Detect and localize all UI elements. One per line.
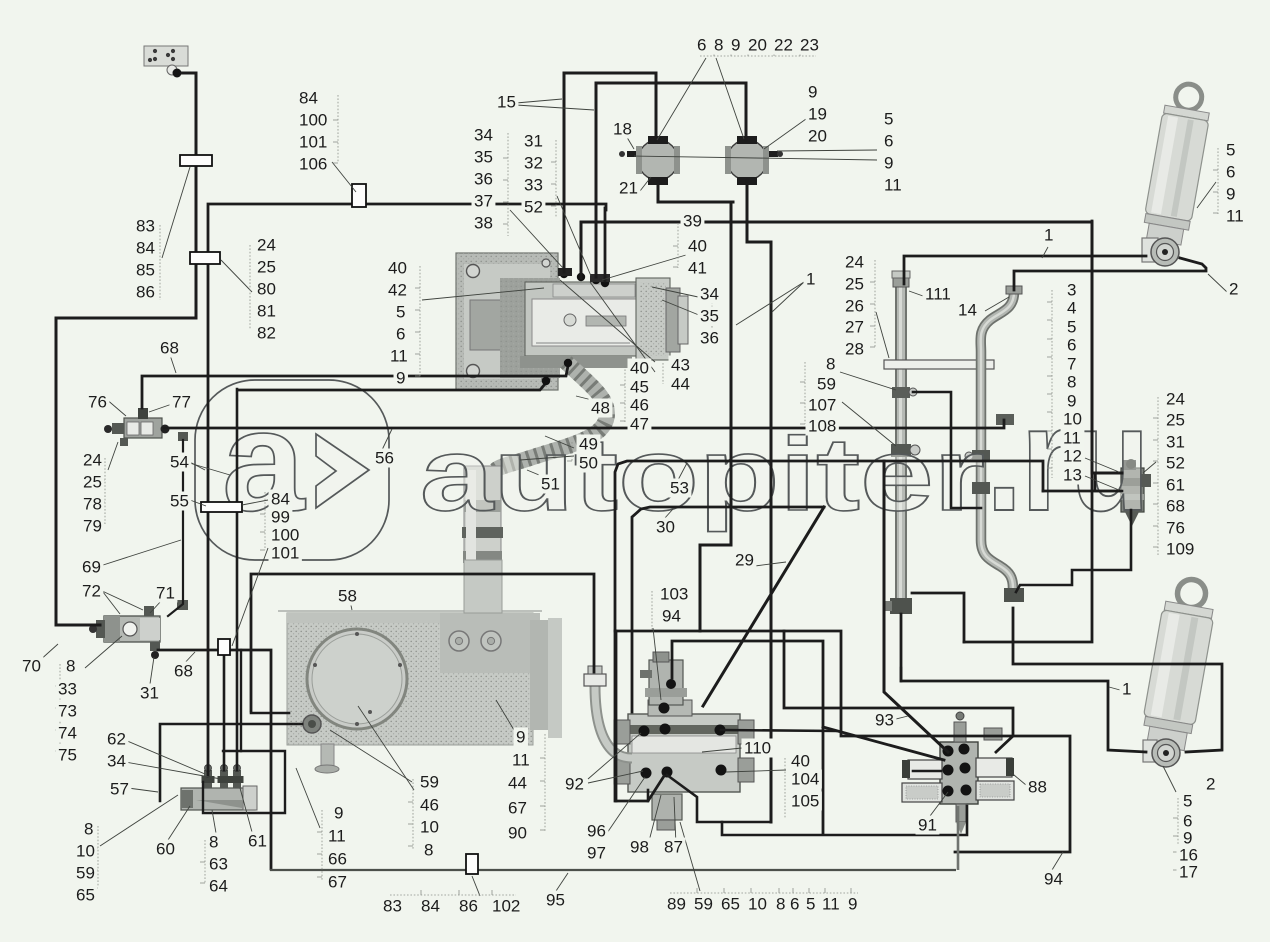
air cylinder bottom-right 5-17 xyxy=(1139,575,1220,751)
svg-text:34: 34 xyxy=(700,285,719,304)
svg-text:9: 9 xyxy=(731,36,740,55)
pipe inner loop manifold xyxy=(223,650,241,751)
instrument panel (top-left) xyxy=(144,46,188,66)
hose connector 55 xyxy=(201,502,242,512)
svg-text:8: 8 xyxy=(424,841,433,860)
svg-text:111: 111 xyxy=(925,285,951,304)
svg-text:10: 10 xyxy=(76,842,95,861)
svg-text:8: 8 xyxy=(1067,373,1076,392)
drier valve 61 right xyxy=(1121,468,1144,512)
svg-text:40: 40 xyxy=(388,259,407,278)
svg-text:36: 36 xyxy=(700,329,719,348)
pipe 2 top xyxy=(1014,258,1206,290)
pipe valve92 left loop xyxy=(615,631,618,801)
svg-text:59: 59 xyxy=(420,773,439,792)
svg-text:108: 108 xyxy=(808,417,836,436)
brake chamber 20 (right) xyxy=(727,140,767,180)
svg-text:76: 76 xyxy=(88,393,107,412)
svg-text:95: 95 xyxy=(546,891,565,910)
pipe valve92 bottom step xyxy=(647,790,650,801)
svg-text:88: 88 xyxy=(1028,778,1047,797)
svg-text:1: 1 xyxy=(1044,226,1053,245)
cylinder bottom-right pulley xyxy=(1143,740,1157,762)
pipe 57 loop xyxy=(160,724,302,801)
svg-text:100: 100 xyxy=(299,111,327,130)
svg-text:21: 21 xyxy=(619,179,638,198)
bracket bar 28 xyxy=(884,360,994,369)
pipe valve 92 lower jog xyxy=(722,806,967,835)
svg-text:a: a xyxy=(222,381,307,541)
svg-text:71: 71 xyxy=(156,584,175,603)
svg-text:10: 10 xyxy=(420,818,439,837)
svg-text:6: 6 xyxy=(396,325,405,344)
svg-text:3: 3 xyxy=(1067,281,1076,300)
svg-text:69: 69 xyxy=(82,558,101,577)
pipe to cylinder1 xyxy=(904,256,1146,284)
manifold 60-61 xyxy=(181,788,255,810)
svg-text:10: 10 xyxy=(748,895,767,914)
line 69 elbows xyxy=(178,432,188,441)
svg-text:32: 32 xyxy=(524,154,543,173)
standpipe 111 xyxy=(895,284,907,610)
svg-text:17: 17 xyxy=(1179,863,1198,882)
svg-text:57: 57 xyxy=(110,780,129,799)
pipe 68 lower xyxy=(158,650,271,869)
svg-text:52: 52 xyxy=(1166,454,1185,473)
svg-text:11: 11 xyxy=(1063,429,1081,448)
svg-text:11: 11 xyxy=(328,827,346,846)
pipe 83-86 branch xyxy=(208,204,606,776)
svg-text:6: 6 xyxy=(790,895,799,914)
svg-text:25: 25 xyxy=(257,258,276,277)
svg-text:9: 9 xyxy=(396,369,405,388)
exhaust hose 48 xyxy=(496,362,607,470)
svg-text:91: 91 xyxy=(918,816,937,835)
svg-text:11: 11 xyxy=(390,347,408,366)
cylinder top-right pulley 2 xyxy=(1142,238,1158,262)
svg-text:6: 6 xyxy=(884,132,893,151)
svg-text:80: 80 xyxy=(257,280,276,299)
hose top elbow fitting xyxy=(584,674,606,686)
svg-text:9: 9 xyxy=(516,728,525,747)
svg-text:40: 40 xyxy=(688,237,707,256)
svg-text:63: 63 xyxy=(209,855,228,874)
svg-text:15: 15 xyxy=(497,93,516,112)
svg-text:6: 6 xyxy=(1067,336,1076,355)
muffler stack 49-51 xyxy=(464,466,501,613)
hose connector 84-99-100-101 xyxy=(218,639,230,655)
engine-gearbox assembly 40-47 xyxy=(456,253,558,390)
svg-text:4: 4 xyxy=(1067,299,1076,318)
svg-text:2: 2 xyxy=(1229,280,1238,299)
svg-text:46: 46 xyxy=(630,396,649,415)
svg-text:12: 12 xyxy=(1063,447,1082,466)
svg-text:5: 5 xyxy=(884,110,893,129)
svg-text:58: 58 xyxy=(338,587,357,606)
svg-text:29: 29 xyxy=(735,551,754,570)
engine bottom port xyxy=(563,357,573,367)
pipe C 30 xyxy=(632,507,824,712)
pipe junction dots xyxy=(564,359,572,367)
pipe valve92 right upper xyxy=(721,730,836,731)
svg-text:8: 8 xyxy=(66,657,75,676)
pipe cyl2 line1 corner xyxy=(900,668,903,681)
hose to valve 92 xyxy=(595,686,632,758)
svg-text:44: 44 xyxy=(671,375,690,394)
chamber 20 side fitting xyxy=(769,151,778,157)
svg-text:9: 9 xyxy=(1226,185,1235,204)
watermark squircle logo xyxy=(195,380,389,560)
svg-text:89: 89 xyxy=(667,895,686,914)
central valve block 92 / 110 xyxy=(628,714,740,792)
svg-text:24: 24 xyxy=(845,253,864,272)
svg-text:33: 33 xyxy=(58,680,77,699)
pipe valve91 left stub xyxy=(913,770,941,773)
svg-text:8: 8 xyxy=(84,820,93,839)
svg-text:33: 33 xyxy=(524,176,543,195)
svg-text:31: 31 xyxy=(140,684,159,703)
svg-text:5: 5 xyxy=(1183,792,1192,811)
svg-text:39: 39 xyxy=(683,212,702,231)
svg-text:1: 1 xyxy=(806,270,815,289)
svg-text:52: 52 xyxy=(524,198,543,217)
svg-text:9: 9 xyxy=(808,83,817,102)
svg-text:97: 97 xyxy=(587,844,606,863)
svg-text:11: 11 xyxy=(512,751,530,770)
svg-text:46: 46 xyxy=(420,796,439,815)
svg-text:90: 90 xyxy=(508,824,527,843)
svg-text:19: 19 xyxy=(808,105,827,124)
suspension valve block 88-91 xyxy=(940,742,978,804)
svg-text:30: 30 xyxy=(656,518,675,537)
fitting 14 bottom xyxy=(1004,588,1024,602)
pipe 14 bottom to cyl2 xyxy=(1013,608,1222,752)
svg-text:8: 8 xyxy=(209,833,218,852)
svg-text:75: 75 xyxy=(58,746,77,765)
svg-text:66: 66 xyxy=(328,850,347,869)
svg-text:68: 68 xyxy=(174,662,193,681)
svg-text:55: 55 xyxy=(170,492,189,511)
pipe manifold drop 2 xyxy=(223,655,226,770)
svg-text:autopiter: autopiter xyxy=(420,416,985,532)
svg-text:14: 14 xyxy=(958,301,977,320)
svg-text:2: 2 xyxy=(1206,775,1215,794)
clamp on 111 lower xyxy=(891,444,911,457)
svg-text:59: 59 xyxy=(817,375,836,394)
pipe 93 shallow diagonal xyxy=(823,727,944,760)
svg-text:13: 13 xyxy=(1063,466,1082,485)
svg-text:109: 109 xyxy=(1166,540,1194,559)
pipe drier down xyxy=(1016,510,1131,592)
clamp on 14 mid xyxy=(972,450,990,462)
svg-text:83: 83 xyxy=(136,217,155,236)
svg-text:54: 54 xyxy=(170,453,189,472)
pipe valve 92 right lower xyxy=(667,775,771,822)
air tank / heater unit 58 xyxy=(287,613,533,745)
pipe y631 to 94box xyxy=(615,631,1070,852)
svg-text:9: 9 xyxy=(1067,392,1076,411)
svg-text:23: 23 xyxy=(800,36,819,55)
svg-text:34: 34 xyxy=(474,126,493,145)
svg-text:45: 45 xyxy=(630,378,649,397)
svg-text:51: 51 xyxy=(541,475,560,494)
svg-text:40: 40 xyxy=(630,359,649,378)
svg-text:8: 8 xyxy=(776,895,785,914)
svg-text:24: 24 xyxy=(1166,390,1185,409)
svg-text:11: 11 xyxy=(1226,207,1244,226)
svg-text:65: 65 xyxy=(721,895,740,914)
svg-text:86: 86 xyxy=(136,283,155,302)
pipe x883 diagonal 93 xyxy=(884,461,948,752)
svg-text:6: 6 xyxy=(697,36,706,55)
svg-text:38: 38 xyxy=(474,214,493,233)
svg-text:18: 18 xyxy=(613,120,632,139)
svg-text:68: 68 xyxy=(1166,497,1185,516)
svg-text:59: 59 xyxy=(694,895,713,914)
svg-text:85: 85 xyxy=(136,261,155,280)
svg-text:83: 83 xyxy=(383,897,402,916)
manifold fittings 62-64 xyxy=(204,770,212,788)
pipe valve92 step right xyxy=(784,631,1013,752)
svg-text:67: 67 xyxy=(328,873,347,892)
svg-text:61: 61 xyxy=(248,832,267,851)
svg-text:84: 84 xyxy=(299,89,318,108)
svg-text:76: 76 xyxy=(1166,519,1185,538)
svg-text:49: 49 xyxy=(579,435,598,454)
pipe clamp link xyxy=(913,392,981,508)
hose connector 24-25-80 xyxy=(190,252,220,264)
svg-text:64: 64 xyxy=(209,877,228,896)
svg-text:60: 60 xyxy=(156,840,175,859)
tank leg xyxy=(321,744,334,768)
valve 91 gray stem to pipe 95 xyxy=(957,806,960,870)
svg-text:40: 40 xyxy=(791,752,810,771)
panel outlet fitting xyxy=(167,65,177,75)
svg-text:11: 11 xyxy=(884,176,902,195)
valve block 70-71 left xyxy=(104,616,160,642)
svg-text:43: 43 xyxy=(671,356,690,375)
pilot valve 103-94 on top xyxy=(649,660,683,705)
pipe 39 stub lower xyxy=(1095,473,1122,491)
svg-text:79: 79 xyxy=(83,517,102,536)
svg-text:81: 81 xyxy=(257,302,276,321)
svg-text:98: 98 xyxy=(630,838,649,857)
svg-text:20: 20 xyxy=(808,127,827,146)
svg-text:101: 101 xyxy=(271,544,299,563)
svg-text:35: 35 xyxy=(474,148,493,167)
valve 91 bottom stem xyxy=(956,804,966,822)
pipe B 53 xyxy=(1043,490,1120,493)
svg-text:96: 96 xyxy=(587,822,606,841)
svg-text:56: 56 xyxy=(375,449,394,468)
svg-text:42: 42 xyxy=(388,281,407,300)
pipe branch x773 xyxy=(770,242,773,822)
svg-text:50: 50 xyxy=(579,454,598,473)
pipe chamber20 down xyxy=(747,180,771,242)
svg-text:84: 84 xyxy=(136,239,155,258)
svg-text:10: 10 xyxy=(1063,410,1082,429)
hose connector 83-84-86-102 xyxy=(466,854,478,874)
svg-text:110: 110 xyxy=(744,739,771,758)
pipe A long 56 xyxy=(164,420,1004,428)
svg-text:99: 99 xyxy=(271,508,290,527)
svg-text:25: 25 xyxy=(1166,411,1185,430)
svg-text:1: 1 xyxy=(1122,680,1131,699)
chamber 18 side fitting xyxy=(627,151,636,157)
svg-text:9: 9 xyxy=(848,895,857,914)
pipe y390 xyxy=(238,384,545,390)
svg-text:7: 7 xyxy=(1067,355,1076,374)
pipe y642 to x1092 xyxy=(964,221,1092,642)
svg-text:59: 59 xyxy=(76,864,95,883)
svg-text:31: 31 xyxy=(524,132,543,151)
svg-text:105: 105 xyxy=(791,792,819,811)
svg-text:6: 6 xyxy=(1226,163,1235,182)
svg-text:65: 65 xyxy=(76,886,95,905)
svg-text:48: 48 xyxy=(591,399,610,418)
svg-text:28: 28 xyxy=(845,340,864,359)
svg-text:5: 5 xyxy=(1067,318,1076,337)
watermark a> glyphs xyxy=(222,381,369,541)
svg-text:37: 37 xyxy=(474,192,493,211)
valve 91 top fitting xyxy=(954,722,966,742)
pipe tank top loop xyxy=(251,574,594,711)
pipe 68 upper xyxy=(142,366,568,408)
svg-text:73: 73 xyxy=(58,702,77,721)
svg-text:41: 41 xyxy=(688,259,707,278)
svg-text:87: 87 xyxy=(664,838,683,857)
pipe 95 long gray xyxy=(270,869,956,871)
pipe to engine port3 xyxy=(604,208,607,281)
pipe y641 xyxy=(672,641,823,834)
pipe tank feed left xyxy=(251,712,289,715)
svg-text:34: 34 xyxy=(107,752,126,771)
valve 92 ports xyxy=(639,726,650,737)
watermark autopiter.ru xyxy=(420,375,1148,542)
svg-text:5: 5 xyxy=(396,303,405,322)
svg-text:61: 61 xyxy=(1166,476,1185,495)
svg-text:67: 67 xyxy=(508,799,527,818)
svg-text:9: 9 xyxy=(334,804,343,823)
pipe y642 bridge xyxy=(912,593,964,642)
svg-text:70: 70 xyxy=(22,657,41,676)
fitting 111 bottom xyxy=(890,598,912,614)
svg-text:84: 84 xyxy=(421,897,440,916)
pipe chamber18 down xyxy=(658,180,731,631)
svg-text:62: 62 xyxy=(107,730,126,749)
svg-text:25: 25 xyxy=(845,275,864,294)
pipe 39 long xyxy=(581,222,1122,473)
valve 91 ports xyxy=(943,746,954,757)
svg-text:44: 44 xyxy=(508,774,527,793)
svg-text:5: 5 xyxy=(806,895,815,914)
pipe chamber18 y202 tail xyxy=(731,201,733,204)
svg-text:53: 53 xyxy=(670,479,689,498)
pipe 14 S-shape xyxy=(981,292,1014,588)
pipe B 53 main xyxy=(615,461,1043,801)
svg-text:24: 24 xyxy=(83,451,102,470)
svg-text:107: 107 xyxy=(808,396,836,415)
tank chimney xyxy=(461,465,463,467)
air cylinder top-right 5-11 xyxy=(1141,80,1215,246)
brake chamber 18 (left) xyxy=(638,140,678,180)
svg-text:25: 25 xyxy=(83,473,102,492)
pipe 29 diagonal xyxy=(703,507,824,706)
svg-text:22: 22 xyxy=(774,36,793,55)
svg-text:103: 103 xyxy=(660,585,688,604)
svg-text:86: 86 xyxy=(459,897,478,916)
svg-text:104: 104 xyxy=(791,770,819,789)
clamp on 14 upper xyxy=(996,414,1014,425)
pipe inner loop manifold 2 xyxy=(203,751,285,813)
svg-text:93: 93 xyxy=(875,711,894,730)
svg-text:5: 5 xyxy=(1226,141,1235,160)
svg-text:9: 9 xyxy=(884,154,893,173)
hose connector on panel line xyxy=(180,155,212,166)
pipe 111 bottom to cyl2 xyxy=(901,614,1146,752)
pipe from panel to valve 70 xyxy=(56,73,196,625)
clamp on 111 upper xyxy=(892,387,910,398)
svg-text:26: 26 xyxy=(845,297,864,316)
svg-text:27: 27 xyxy=(845,318,864,337)
svg-text:35: 35 xyxy=(700,307,719,326)
valve 76-77 xyxy=(124,418,162,438)
pipe 15b to chamber 20 xyxy=(596,83,746,277)
svg-text:20: 20 xyxy=(748,36,767,55)
svg-text:47: 47 xyxy=(630,415,649,434)
engine top ports xyxy=(560,270,568,278)
svg-text:11: 11 xyxy=(822,895,840,914)
tank drain port xyxy=(303,715,321,733)
drain valve 87-98 below xyxy=(652,794,682,820)
svg-text:82: 82 xyxy=(257,324,276,343)
svg-text:101: 101 xyxy=(299,133,327,152)
hose connector 84-100-101-106 xyxy=(352,184,366,207)
svg-text:8: 8 xyxy=(826,355,835,374)
svg-text:74: 74 xyxy=(58,724,77,743)
svg-text:94: 94 xyxy=(1044,870,1063,889)
svg-text:92: 92 xyxy=(565,775,584,794)
svg-text:24: 24 xyxy=(257,236,276,255)
svg-text:106: 106 xyxy=(299,155,327,174)
svg-text:102: 102 xyxy=(492,897,520,916)
svg-text:68: 68 xyxy=(160,339,179,358)
svg-text:94: 94 xyxy=(662,607,681,626)
svg-text:36: 36 xyxy=(474,170,493,189)
svg-text:78: 78 xyxy=(83,495,102,514)
svg-text:8: 8 xyxy=(714,36,723,55)
pipe 69 xyxy=(168,440,183,616)
pipe manifold drop 3 xyxy=(236,389,239,770)
svg-text:84: 84 xyxy=(271,490,290,509)
svg-text:77: 77 xyxy=(172,393,191,412)
svg-text:31: 31 xyxy=(1166,433,1185,452)
svg-text:72: 72 xyxy=(82,582,101,601)
pipe 15a to chamber 18 xyxy=(564,73,656,272)
svg-text:100: 100 xyxy=(271,526,299,545)
